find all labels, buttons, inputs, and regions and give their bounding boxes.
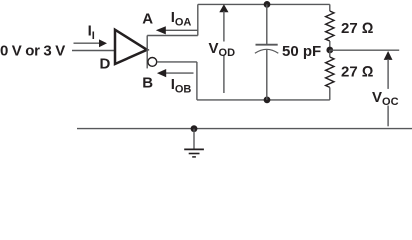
junction dot (cap top / node): [264, 1, 271, 8]
current arrow I_OA: [156, 26, 198, 34]
wire output B: [157, 61, 197, 63]
driver D (triangle buffer): [115, 30, 147, 64]
capacitor C1 50 pF: [255, 4, 278, 100]
svg-text:50 pF: 50 pF: [282, 43, 321, 60]
svg-text:D: D: [100, 55, 111, 72]
svg-text:A: A: [142, 10, 153, 27]
wire bottom rail: [197, 99, 330, 101]
junction dot (resistor midpoint): [326, 47, 333, 54]
svg-text:0 V or 3 V: 0 V or 3 V: [0, 42, 65, 59]
junction dot (ground connection): [191, 125, 198, 132]
resistor R1 27 ohm (top): [326, 4, 334, 50]
wire A riser to top rail: [197, 4, 199, 35]
svg-text:27 Ω: 27 Ω: [341, 63, 373, 80]
junction dot (cap bottom / node): [264, 97, 271, 104]
current arrow I_OB: [157, 69, 194, 77]
wire output A: [147, 35, 198, 37]
wire top rail: [198, 3, 330, 5]
measurement arrow V_OC (points up to midpoint wire): [384, 51, 393, 126]
measurement arrow V_OD (points up to top rail): [219, 4, 228, 93]
ground symbol: [184, 129, 204, 157]
current arrow I_I: [74, 39, 108, 47]
svg-text:27 Ω: 27 Ω: [341, 20, 373, 37]
svg-text:B: B: [142, 75, 153, 92]
wire ground rail: [77, 128, 412, 130]
wire output bar (vertical at driver outputs): [146, 36, 148, 69]
inversion bubble on output B: [148, 58, 157, 67]
resistor R2 27 ohm (bottom): [326, 50, 334, 100]
wire B dropper to bottom rail: [196, 62, 198, 100]
wire input: [72, 50, 115, 52]
wire resistor midpoint to V_OC: [330, 49, 399, 51]
